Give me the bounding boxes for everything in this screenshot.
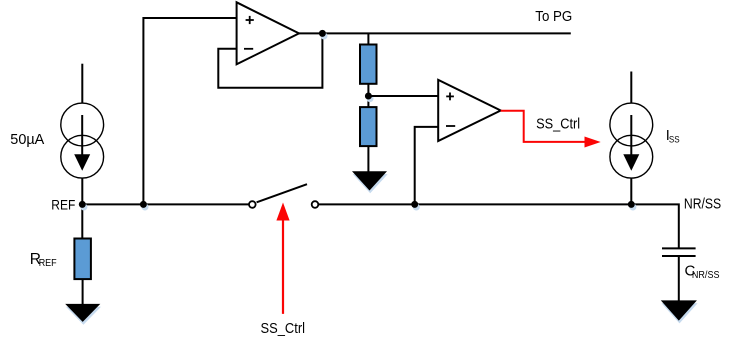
current source 50uA top stub xyxy=(81,64,83,104)
wire 50uA source to REF node xyxy=(81,178,83,238)
node Iss junction xyxy=(629,204,636,211)
wire stub to resistor R1 xyxy=(367,33,369,44)
ground (divider) xyxy=(353,174,388,193)
wire NR/SS rail from switch to capacitor xyxy=(318,204,678,248)
ground (RREF) xyxy=(66,307,101,325)
current source Iss arrow xyxy=(630,115,632,155)
wire from REF node up to op-amp U1 + input xyxy=(143,18,236,204)
wire R2 to ground xyxy=(367,146,369,172)
resistor RREF xyxy=(74,239,91,280)
wire R1 to R2 through divider node xyxy=(367,84,369,107)
op-amp U1 xyxy=(237,2,299,64)
node divider junction xyxy=(367,95,374,102)
capacitor CNR/SS plates xyxy=(662,248,696,256)
op-amp U2 xyxy=(438,80,501,141)
wire Iss source to NR/SS rail xyxy=(630,178,632,204)
red arrowhead SS_Ctrl to Iss xyxy=(585,137,601,148)
current source Iss xyxy=(610,103,653,178)
op-amp U2 plus pin mark xyxy=(446,93,454,101)
current source 50uA arrow xyxy=(81,115,83,155)
wire REF rail to switch xyxy=(82,203,249,205)
svg-text:To PG: To PG xyxy=(535,9,572,25)
wire divider node to op-amp U2 + input xyxy=(368,95,438,97)
op-amp U2 minus pin mark xyxy=(446,125,455,127)
svg-text:NR/SS: NR/SS xyxy=(692,270,720,281)
node REF/U1 junction xyxy=(142,204,149,211)
svg-text:SS_Ctrl: SS_Ctrl xyxy=(536,117,580,133)
switch SW1 right contact xyxy=(312,201,319,208)
wire U1 output to To PG xyxy=(299,32,571,34)
ground (CNR/SS) xyxy=(662,303,698,323)
wire U2 minus input from NR/SS rail xyxy=(415,127,439,204)
node U2 minus junction xyxy=(413,204,420,211)
svg-text:NR/SS: NR/SS xyxy=(684,197,721,213)
current source 50uA xyxy=(61,103,104,178)
wire capacitor to ground xyxy=(678,256,680,301)
node REF junction xyxy=(80,204,87,211)
wire U1 feedback loop to minus input xyxy=(218,33,322,87)
resistor R1 xyxy=(360,45,377,84)
red arrow SS_Ctrl to switch xyxy=(282,220,284,314)
current source Iss top stub xyxy=(630,72,632,104)
wire RREF to ground xyxy=(82,279,84,304)
svg-text:SS_Ctrl: SS_Ctrl xyxy=(261,321,306,337)
svg-text:REF: REF xyxy=(39,258,57,269)
resistor R2 xyxy=(360,107,377,146)
switch SW1 left contact xyxy=(249,201,256,208)
op-amp U1 minus pin mark xyxy=(244,48,253,50)
switch SW1 blade xyxy=(257,184,307,202)
node U1 output junction xyxy=(321,33,328,40)
svg-text:SS: SS xyxy=(669,134,680,145)
op-amp U1 plus pin mark xyxy=(246,16,254,24)
svg-text:50µA: 50µA xyxy=(10,132,44,148)
wire SS_Ctrl (red) from U2 output xyxy=(501,111,585,142)
svg-text:REF: REF xyxy=(51,197,75,212)
